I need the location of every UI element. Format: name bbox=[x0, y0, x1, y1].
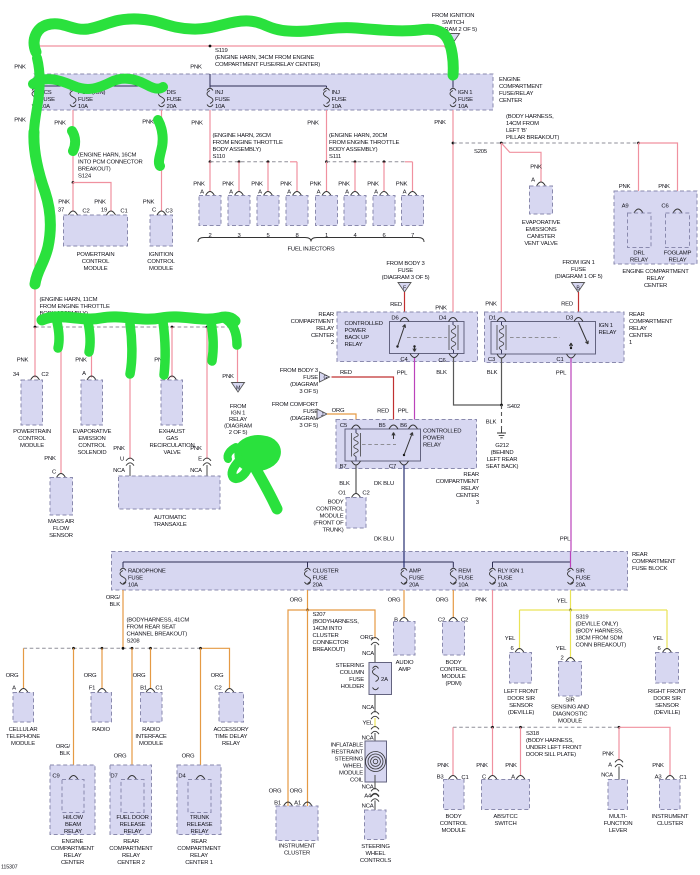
svg-text:CENTER: CENTER bbox=[311, 333, 334, 339]
svg-text:A: A bbox=[608, 763, 612, 769]
svg-text:MODULE: MODULE bbox=[319, 514, 343, 520]
svg-text:STEERING: STEERING bbox=[334, 757, 363, 763]
body control module pdm box bbox=[449, 618, 458, 622]
svg-text:PNK: PNK bbox=[367, 182, 379, 188]
wire PNK S205 to IGN1 relay D1 bbox=[500, 143, 502, 318]
svg-text:37: 37 bbox=[58, 208, 64, 214]
svg-text:PNK: PNK bbox=[94, 200, 106, 206]
svg-text:CONN BREAKOUT): CONN BREAKOUT) bbox=[576, 643, 627, 649]
svg-text:S208: S208 bbox=[127, 639, 141, 645]
svg-text:BODY: BODY bbox=[328, 500, 344, 506]
svg-text:FUSE: FUSE bbox=[409, 576, 424, 582]
svg-text:2 OF 5): 2 OF 5) bbox=[229, 430, 248, 436]
wire ORG/BLK to hi/low beam relay bbox=[73, 648, 75, 776]
svg-text:RELAY: RELAY bbox=[461, 486, 479, 492]
svg-text:FROM BODY 3: FROM BODY 3 bbox=[386, 261, 425, 267]
svg-text:RELAY: RELAY bbox=[423, 443, 441, 449]
svg-text:(ENGINE HARN, 34CM FROM ENGINE: (ENGINE HARN, 34CM FROM ENGINE bbox=[215, 55, 314, 61]
svg-text:COMPARTMENT: COMPARTMENT bbox=[436, 479, 480, 485]
svg-text:COMPARTMENT: COMPARTMENT bbox=[291, 319, 335, 325]
wire to multi-function lever box bbox=[618, 767, 620, 780]
svg-text:PNK: PNK bbox=[437, 763, 449, 769]
svg-text:C1: C1 bbox=[155, 686, 162, 692]
inline connector transaxle E bbox=[203, 458, 211, 466]
mass air flow sensor box bbox=[57, 474, 66, 478]
wire RED triangle G to relay B5 bbox=[332, 377, 394, 425]
svg-text:REAR: REAR bbox=[123, 839, 139, 845]
svg-text:FUSE: FUSE bbox=[313, 576, 328, 582]
svg-text:C1: C1 bbox=[120, 209, 127, 215]
svg-text:NCA: NCA bbox=[190, 468, 202, 474]
svg-text:(DEVILLE): (DEVILLE) bbox=[654, 710, 681, 716]
svg-text:CONTROL: CONTROL bbox=[78, 443, 106, 449]
svg-text:FUEL INJECTORS: FUEL INJECTORS bbox=[288, 247, 335, 253]
connector triangle M from IGN 1 relay bbox=[232, 383, 245, 393]
splice S205 bbox=[452, 142, 455, 145]
svg-text:RELEASE: RELEASE bbox=[120, 822, 146, 828]
fuse PCM (IGN) 10A bbox=[70, 88, 76, 90]
svg-text:ORG: ORG bbox=[332, 408, 345, 414]
svg-text:YEL: YEL bbox=[557, 599, 568, 605]
svg-text:REAR: REAR bbox=[191, 839, 207, 845]
svg-text:ORG: ORG bbox=[84, 673, 97, 679]
svg-text:BODY ASSEMBLY): BODY ASSEMBLY) bbox=[329, 147, 378, 153]
connector triangle G from body 3 fuse bbox=[320, 372, 330, 382]
svg-text:FUSE: FUSE bbox=[303, 375, 318, 381]
inline connector multifunction bbox=[615, 760, 623, 768]
wire PNK to injector 7 bbox=[412, 162, 414, 192]
splice S111 bbox=[325, 160, 328, 163]
green marker S126 horizontal bbox=[42, 317, 235, 321]
svg-text:CELLULAR: CELLULAR bbox=[9, 727, 38, 733]
IGN1 relay internal dashed bbox=[510, 337, 560, 339]
svg-text:RELAY: RELAY bbox=[64, 829, 82, 835]
rear compartment relay center 2 box bbox=[337, 312, 478, 362]
svg-text:HOLDER: HOLDER bbox=[341, 684, 364, 690]
svg-text:(DIAGRAM: (DIAGRAM bbox=[290, 382, 318, 388]
hi/low beam relay box bbox=[69, 776, 78, 780]
svg-text:10A: 10A bbox=[78, 104, 88, 110]
svg-text:SIR: SIR bbox=[576, 569, 585, 575]
svg-text:EXHAUST: EXHAUST bbox=[159, 429, 186, 435]
svg-text:CLUSTER: CLUSTER bbox=[313, 633, 339, 639]
svg-text:DK BLU: DK BLU bbox=[374, 481, 394, 487]
fuse RLY IGN 1 10A bbox=[490, 568, 496, 570]
svg-text:ORG: ORG bbox=[388, 598, 401, 604]
rear compartment fuse block bbox=[112, 552, 628, 591]
ignition control module box bbox=[150, 215, 173, 246]
fuse INJ 10A bbox=[207, 88, 213, 90]
green marker in-band wave bbox=[33, 79, 163, 89]
svg-text:D7: D7 bbox=[110, 774, 117, 780]
wire ORG amp fuse to audio amp bbox=[403, 590, 405, 618]
svg-text:DRL: DRL bbox=[633, 251, 645, 257]
svg-text:(BODYHARNESS,: (BODYHARNESS, bbox=[313, 619, 360, 625]
svg-text:A: A bbox=[229, 190, 233, 196]
wire PNK S205 to fog lamp relay bbox=[639, 143, 678, 209]
wire BLK C6 to S402 bbox=[454, 358, 502, 405]
svg-text:FUSE: FUSE bbox=[349, 677, 364, 683]
steering column fuse holder box bbox=[369, 663, 392, 695]
svg-text:S402: S402 bbox=[507, 404, 520, 410]
svg-text:DK BLU: DK BLU bbox=[374, 537, 394, 543]
svg-text:CENTER 2: CENTER 2 bbox=[117, 860, 145, 866]
svg-text:(BEHIND: (BEHIND bbox=[491, 450, 514, 456]
svg-text:FUSE: FUSE bbox=[458, 97, 473, 103]
svg-text:CONTROLS: CONTROLS bbox=[360, 858, 391, 864]
svg-text:ABS/TCC: ABS/TCC bbox=[493, 814, 518, 820]
backup relay internal dashed bbox=[407, 337, 447, 339]
svg-text:C2: C2 bbox=[41, 372, 48, 378]
svg-text:ORG: ORG bbox=[211, 673, 224, 679]
wire internal IGN1 feed bbox=[452, 74, 454, 88]
wire YEL to left front door SIR sensor bbox=[519, 610, 521, 650]
svg-text:BLK: BLK bbox=[59, 751, 70, 757]
wire internal bus INJ-INJ from S119 bbox=[209, 74, 211, 88]
wire below fuse holder bbox=[374, 695, 376, 713]
backup relay contact to C4 bbox=[413, 345, 415, 347]
svg-text:RIGHT FRONT: RIGHT FRONT bbox=[648, 689, 687, 695]
svg-text:FUSE/RELAY: FUSE/RELAY bbox=[499, 91, 533, 97]
svg-text:BLK: BLK bbox=[436, 370, 447, 376]
svg-text:LEVER: LEVER bbox=[609, 828, 627, 834]
audio amp box bbox=[400, 618, 409, 622]
engine compartment relay center lower box bbox=[50, 765, 95, 835]
wire below coil bbox=[374, 775, 376, 790]
svg-text:FUSE: FUSE bbox=[167, 97, 182, 103]
wire PNK to injector 6 bbox=[383, 162, 385, 192]
svg-text:DOOR SIR: DOOR SIR bbox=[653, 696, 681, 702]
power relay coil bbox=[355, 430, 357, 434]
svg-text:(DIAGRAM: (DIAGRAM bbox=[224, 424, 252, 430]
svg-text:PNK: PNK bbox=[14, 118, 26, 124]
svg-text:SENSOR: SENSOR bbox=[509, 703, 533, 709]
wire ORG to cellular telephone module bbox=[23, 648, 25, 689]
svg-text:20A: 20A bbox=[576, 583, 586, 589]
wire PPL C4 to controlled power relay B6 bbox=[414, 358, 416, 425]
svg-text:B7: B7 bbox=[340, 464, 347, 470]
svg-text:RELAY: RELAY bbox=[647, 276, 665, 282]
ground G212 bbox=[497, 429, 506, 438]
pin C7 bbox=[400, 461, 409, 465]
svg-text:C7: C7 bbox=[389, 464, 396, 470]
power relay switch blade bbox=[403, 454, 405, 456]
svg-text:RELAY: RELAY bbox=[630, 258, 648, 264]
svg-text:MODULE: MODULE bbox=[339, 771, 363, 777]
svg-text:HI/LOW: HI/LOW bbox=[63, 815, 83, 821]
green marker arrow blob bbox=[238, 439, 277, 468]
svg-text:REAR: REAR bbox=[632, 552, 648, 558]
splice S124 bbox=[72, 181, 75, 184]
svg-text:ORG/: ORG/ bbox=[56, 744, 71, 750]
svg-text:PNK: PNK bbox=[396, 182, 408, 188]
svg-text:A: A bbox=[403, 190, 407, 196]
wire PNK to body control module B3 bbox=[452, 727, 454, 775]
svg-text:REAR: REAR bbox=[463, 472, 479, 478]
svg-text:DOOR SIR: DOOR SIR bbox=[507, 696, 535, 702]
wire ORG/BLK radio fuse to S208 bbox=[122, 590, 124, 648]
svg-text:COLUMN: COLUMN bbox=[340, 670, 364, 676]
wire into transaxle E bbox=[206, 465, 208, 476]
svg-text:10A: 10A bbox=[458, 104, 468, 110]
wire YEL to SIR sensing and diagnostic module bbox=[570, 610, 572, 659]
svg-text:TRANSAXLE: TRANSAXLE bbox=[153, 522, 186, 528]
connector triangle J from comfort fuse bbox=[317, 409, 327, 419]
svg-text:MASS AIR: MASS AIR bbox=[48, 519, 74, 525]
svg-text:M: M bbox=[236, 386, 240, 392]
inline connector below fuse holder bbox=[371, 712, 379, 720]
fog lamp relay box bbox=[673, 209, 682, 213]
svg-text:BEAM: BEAM bbox=[65, 822, 81, 828]
svg-text:14CM INTO: 14CM INTO bbox=[313, 626, 343, 632]
svg-text:CONNECTOR: CONNECTOR bbox=[313, 640, 349, 646]
svg-text:SENSOR: SENSOR bbox=[49, 533, 73, 539]
wire YEL inline segment bbox=[374, 718, 376, 728]
automatic transaxle box bbox=[119, 476, 221, 509]
svg-text:RELAY: RELAY bbox=[629, 326, 647, 332]
wire PNK to transaxle U bbox=[129, 327, 131, 459]
accessory time delay relay box bbox=[225, 689, 234, 693]
svg-text:CENTER: CENTER bbox=[456, 493, 479, 499]
svg-text:PNK: PNK bbox=[113, 446, 125, 452]
rear compartment relay center 1 lower box bbox=[177, 765, 221, 835]
left front door SIR sensor box bbox=[515, 649, 524, 653]
power relay B5 stub bbox=[392, 433, 395, 440]
svg-text:(ENGINE HARN, 20CM: (ENGINE HARN, 20CM bbox=[329, 133, 388, 139]
svg-text:B5: B5 bbox=[379, 423, 387, 429]
svg-text:AMP: AMP bbox=[398, 667, 410, 673]
svg-text:COMPARTMENT: COMPARTMENT bbox=[632, 559, 676, 565]
svg-text:10A: 10A bbox=[128, 583, 138, 589]
svg-text:F: F bbox=[403, 286, 406, 292]
wire PNK S124 to PCM pin 19 bbox=[73, 183, 111, 212]
svg-text:FUSE: FUSE bbox=[458, 576, 473, 582]
svg-text:FUSE: FUSE bbox=[303, 409, 318, 415]
evaporative emissions canister vent valve box bbox=[537, 182, 546, 186]
svg-text:S124: S124 bbox=[78, 174, 92, 180]
svg-text:CENTER: CENTER bbox=[644, 283, 667, 289]
svg-text:WHEEL: WHEEL bbox=[366, 851, 387, 857]
wire internal bus rlyign1-sir bbox=[493, 561, 571, 563]
svg-text:(DIAGRAM 1 OF 5): (DIAGRAM 1 OF 5) bbox=[555, 274, 603, 280]
power relay internal dashed bbox=[362, 444, 396, 446]
splice line S205 bbox=[453, 142, 639, 144]
svg-text:INSTRUMENT: INSTRUMENT bbox=[652, 814, 689, 820]
svg-text:PNK: PNK bbox=[75, 358, 87, 364]
svg-text:FUEL DOOR: FUEL DOOR bbox=[116, 815, 148, 821]
splice line S126 bbox=[35, 326, 238, 328]
svg-text:PNK: PNK bbox=[17, 358, 29, 364]
svg-text:RELAY: RELAY bbox=[191, 829, 209, 835]
svg-text:CONTROLLED: CONTROLLED bbox=[345, 321, 383, 327]
svg-text:C3: C3 bbox=[488, 357, 496, 363]
green marker left vertical stroke bbox=[34, 132, 51, 284]
radio interface module box bbox=[146, 689, 155, 693]
svg-text:(DIAGRAM: (DIAGRAM bbox=[290, 416, 318, 422]
fuse ECS 10A bbox=[32, 88, 38, 90]
svg-text:D3: D3 bbox=[566, 316, 574, 322]
wire PNK ignition switch to fuse block bbox=[452, 43, 454, 74]
svg-text:RELEASE: RELEASE bbox=[187, 822, 213, 828]
svg-text:DIAGNOSTIC: DIAGNOSTIC bbox=[553, 712, 589, 718]
svg-text:PNK: PNK bbox=[143, 200, 155, 206]
body control module front of trunk box bbox=[352, 494, 361, 498]
svg-text:PNK: PNK bbox=[222, 182, 234, 188]
svg-text:PNK: PNK bbox=[505, 763, 517, 769]
svg-text:C2: C2 bbox=[362, 491, 369, 497]
svg-text:BREAKOUT): BREAKOUT) bbox=[313, 647, 346, 653]
splice S207 bbox=[306, 609, 309, 612]
wire into clockspring coil bbox=[374, 733, 376, 748]
svg-text:CONTROL: CONTROL bbox=[18, 436, 46, 442]
svg-text:TRUNK: TRUNK bbox=[190, 815, 210, 821]
svg-text:STEERING: STEERING bbox=[361, 844, 390, 850]
svg-text:CONTROLLED: CONTROLLED bbox=[423, 429, 461, 435]
svg-text:2: 2 bbox=[208, 233, 211, 239]
svg-text:RELAY: RELAY bbox=[599, 330, 617, 336]
svg-text:PNK: PNK bbox=[475, 598, 487, 604]
svg-text:A: A bbox=[258, 190, 262, 196]
svg-text:34: 34 bbox=[13, 372, 20, 378]
svg-text:BODY: BODY bbox=[446, 814, 462, 820]
svg-text:LEFT FRONT: LEFT FRONT bbox=[504, 689, 539, 695]
svg-text:FUSE: FUSE bbox=[398, 268, 413, 274]
svg-text:INTERFACE: INTERFACE bbox=[135, 734, 167, 740]
svg-text:C6: C6 bbox=[661, 204, 669, 210]
instrument cluster box lower bbox=[666, 776, 675, 780]
wire ORG cluster fuse to S207 bbox=[307, 590, 309, 610]
svg-text:NCA: NCA bbox=[113, 468, 125, 474]
svg-text:PNK: PNK bbox=[476, 763, 488, 769]
svg-text:FROM ENGINE THROTTLE: FROM ENGINE THROTTLE bbox=[329, 140, 399, 146]
fuse IGN 1 10A bbox=[450, 88, 456, 90]
svg-text:7: 7 bbox=[411, 233, 414, 239]
svg-text:PNK: PNK bbox=[530, 165, 542, 171]
svg-text:C9: C9 bbox=[52, 774, 59, 780]
svg-text:FUSE: FUSE bbox=[576, 576, 591, 582]
svg-text:ORG: ORG bbox=[6, 673, 19, 679]
svg-text:PILLAR BREAKOUT): PILLAR BREAKOUT) bbox=[506, 135, 559, 141]
wire PNK S205 to DRL relay bbox=[638, 143, 640, 209]
svg-text:B1: B1 bbox=[140, 686, 147, 692]
svg-text:COMPARTMENT: COMPARTMENT bbox=[51, 846, 95, 852]
svg-text:EMISSION: EMISSION bbox=[78, 436, 105, 442]
steering wheel controls box bbox=[365, 810, 387, 840]
svg-text:FUNCTION: FUNCTION bbox=[604, 821, 633, 827]
svg-text:S110: S110 bbox=[213, 154, 226, 160]
svg-text:2: 2 bbox=[331, 340, 334, 346]
wire PNK PCM fuse to S124 bbox=[72, 110, 74, 183]
svg-text:IGNITION: IGNITION bbox=[149, 252, 174, 258]
svg-text:NCA: NCA bbox=[362, 804, 374, 810]
svg-text:ORG: ORG bbox=[290, 789, 303, 795]
svg-text:18CM FROM SDM: 18CM FROM SDM bbox=[576, 636, 623, 642]
svg-text:RED: RED bbox=[561, 302, 573, 308]
svg-text:STEERING: STEERING bbox=[335, 663, 364, 669]
svg-text:ORG: ORG bbox=[436, 598, 449, 604]
wire ORG to fuel door release relay bbox=[131, 648, 133, 776]
svg-text:IGN 1: IGN 1 bbox=[231, 411, 245, 417]
wire steering column to fuse holder bbox=[374, 645, 376, 663]
pin C3 bbox=[497, 354, 506, 358]
svg-text:PNK: PNK bbox=[619, 184, 631, 190]
wire ORG to trunk release relay bbox=[200, 648, 202, 776]
svg-text:C5: C5 bbox=[340, 423, 348, 429]
svg-text:CHANNEL BREAKOUT): CHANNEL BREAKOUT) bbox=[127, 632, 188, 638]
connector triangle L from ignition switch bbox=[447, 34, 460, 44]
svg-text:YEL: YEL bbox=[653, 636, 664, 642]
inline connector above coil bbox=[371, 727, 379, 735]
fuse 2A steering column bbox=[373, 666, 379, 668]
svg-text:RELAY: RELAY bbox=[124, 829, 142, 835]
svg-text:SOLENOID: SOLENOID bbox=[78, 450, 107, 456]
green marker hook 1 bbox=[57, 322, 59, 348]
connector triangle B from IGN 1 fuse bbox=[572, 283, 585, 293]
evaporative emission control solenoid box bbox=[87, 376, 96, 380]
svg-text:POWERTRAIN: POWERTRAIN bbox=[13, 429, 51, 435]
svg-text:S318: S318 bbox=[526, 731, 540, 737]
svg-text:AUTOMATIC: AUTOMATIC bbox=[154, 515, 187, 521]
svg-text:COIL: COIL bbox=[350, 778, 364, 784]
svg-text:20A: 20A bbox=[313, 583, 323, 589]
wire PNK to injector 1 bbox=[326, 162, 328, 192]
wire PNK INJ fuse 2 to S111 bbox=[326, 110, 328, 162]
wire PNK to evap emission control solenoid bbox=[91, 327, 93, 378]
svg-text:MODULE: MODULE bbox=[558, 719, 582, 725]
svg-text:(ENGINE HARN, 26CM: (ENGINE HARN, 26CM bbox=[213, 133, 272, 139]
svg-text:115307: 115307 bbox=[1, 865, 18, 871]
svg-text:MODULE: MODULE bbox=[11, 741, 35, 747]
svg-text:E: E bbox=[198, 457, 202, 463]
svg-text:INFLATABLE: INFLATABLE bbox=[331, 743, 364, 749]
svg-text:C2: C2 bbox=[214, 686, 221, 692]
svg-text:B6: B6 bbox=[400, 423, 408, 429]
svg-text:CONTROL: CONTROL bbox=[147, 259, 175, 265]
svg-text:2A: 2A bbox=[381, 677, 388, 683]
powertrain control module box bbox=[64, 215, 128, 246]
svg-text:A9: A9 bbox=[622, 204, 629, 210]
svg-text:PNK: PNK bbox=[652, 763, 664, 769]
svg-text:1: 1 bbox=[629, 340, 632, 346]
svg-text:NCA: NCA bbox=[362, 705, 374, 711]
svg-text:BLK: BLK bbox=[486, 420, 497, 426]
svg-text:ACCESSORY: ACCESSORY bbox=[213, 727, 248, 733]
svg-text:PNK: PNK bbox=[338, 182, 350, 188]
svg-text:ENGINE: ENGINE bbox=[499, 77, 521, 83]
pin C6 backup bbox=[449, 354, 458, 358]
wire BLK S402 to ground bbox=[501, 405, 503, 429]
wire ORG to radio interface module bbox=[150, 648, 152, 689]
green marker hook 4 bbox=[163, 322, 165, 375]
svg-text:RADIO: RADIO bbox=[92, 727, 110, 733]
svg-text:D4: D4 bbox=[178, 774, 186, 780]
wire to steering wheel controls bbox=[374, 801, 376, 811]
svg-text:CENTER: CENTER bbox=[499, 98, 522, 104]
right front door SIR sensor box bbox=[663, 649, 672, 653]
wire PNK left rail down to band bbox=[34, 46, 36, 74]
wire PNK to abs/tcc C bbox=[492, 727, 494, 775]
svg-text:RED: RED bbox=[390, 302, 402, 308]
svg-text:U: U bbox=[120, 457, 124, 463]
svg-text:MODULE: MODULE bbox=[139, 741, 163, 747]
wire into transaxle U bbox=[129, 465, 131, 476]
wire ORG rem fuse to body control module pdm bbox=[452, 590, 454, 618]
svg-text:A: A bbox=[317, 190, 321, 196]
svg-text:1: 1 bbox=[325, 233, 328, 239]
wire PNK to abs/tcc A bbox=[520, 727, 522, 775]
svg-text:POWERTRAIN: POWERTRAIN bbox=[77, 252, 115, 258]
svg-text:O1: O1 bbox=[338, 491, 345, 497]
